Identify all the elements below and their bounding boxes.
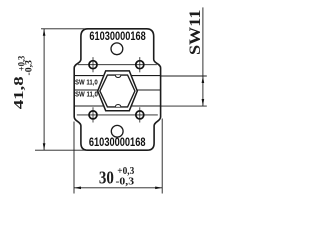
dimension 30 arrow left xyxy=(74,187,81,190)
dimension 41,8 arrow bottom xyxy=(43,143,46,150)
dimension SW11 extension line top xyxy=(161,75,207,77)
key notch bottom xyxy=(115,105,120,107)
svg-text:30: 30 xyxy=(99,167,114,187)
band line top xyxy=(74,75,160,77)
dimension 30 arrow right xyxy=(155,187,162,190)
svg-text:41,8: 41,8 xyxy=(12,76,27,109)
svg-text:SW 11,0: SW 11,0 xyxy=(75,90,98,99)
dimension 41,8 arrow top xyxy=(43,29,46,36)
key notch top xyxy=(115,75,120,77)
dimension 30 extension line right xyxy=(161,119,163,194)
dimension SW11 line xyxy=(202,7,204,106)
centerline mid xyxy=(74,89,160,91)
dimension SW11 arrow top xyxy=(202,76,205,83)
svg-text:SW11: SW11 xyxy=(187,10,204,56)
centerline top holes xyxy=(78,64,157,66)
tolerance -0,3 bottom xyxy=(116,176,135,187)
svg-text:+0,3: +0,3 xyxy=(117,166,134,177)
dimension SW11 arrow bottom xyxy=(202,99,205,106)
centerline bottom holes xyxy=(77,114,158,116)
hole bottom-left xyxy=(89,107,97,122)
tolerance +0,3 left xyxy=(18,55,28,71)
label part number bottom xyxy=(89,136,146,149)
dimension 41,8 line xyxy=(43,29,45,150)
svg-text:61030000168: 61030000168 xyxy=(89,30,146,43)
dimension SW11 extension line bottom xyxy=(161,105,207,107)
label SW 11,0 upper xyxy=(75,77,98,86)
svg-text:61030000168: 61030000168 xyxy=(89,136,146,149)
top tab hole xyxy=(111,43,123,55)
dimension 30 extension line left xyxy=(73,122,75,194)
dimension text 30 xyxy=(99,167,114,187)
hexagon inner SW11 hole xyxy=(100,75,135,107)
part outline xyxy=(74,29,160,150)
hole top-right xyxy=(136,57,144,72)
label SW 11,0 lower xyxy=(75,90,98,99)
band line bottom xyxy=(74,105,160,107)
dimension 41,8 extension line bottom xyxy=(35,149,88,151)
tolerance +0,3 bottom xyxy=(117,166,134,177)
dimension 30 line xyxy=(74,187,162,189)
hexagon outer boss xyxy=(98,71,138,111)
hole top-left xyxy=(89,57,97,72)
dimension text SW11 xyxy=(187,10,204,56)
svg-text:-0,3: -0,3 xyxy=(25,60,35,76)
hole bottom-right xyxy=(136,107,144,122)
dimension 41,8 extension line top xyxy=(41,28,88,30)
dimension text 41,8 xyxy=(12,76,27,109)
tolerance -0,3 left xyxy=(25,60,35,76)
label part number top xyxy=(89,30,146,43)
svg-text:-0,3: -0,3 xyxy=(116,176,135,187)
bottom tab hole xyxy=(111,125,123,137)
svg-text:SW 11,0: SW 11,0 xyxy=(75,77,98,86)
